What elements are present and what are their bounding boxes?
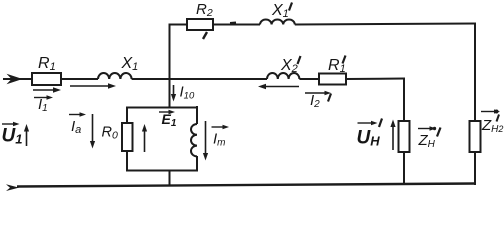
loop right leg upper xyxy=(196,106,198,124)
vector arrow over Zн2 xyxy=(481,111,494,113)
loop left leg upper xyxy=(126,107,128,125)
current arrow under R1 xyxy=(33,89,56,91)
inductor X1 xyxy=(98,73,132,79)
svg-text:Ia: Ia xyxy=(71,118,81,136)
down arrow beside Ia xyxy=(92,114,94,142)
wire X1 to X2' through junction xyxy=(132,78,267,80)
svg-text:X1: X1 xyxy=(271,2,289,20)
vector arrow over Ia xyxy=(69,114,81,116)
vector arrow over E1 xyxy=(159,111,170,113)
load Zн2 box xyxy=(470,121,481,152)
wire loop to bottom rail xyxy=(169,171,171,187)
input terminal arrow xyxy=(7,74,23,84)
svg-text:I10: I10 xyxy=(180,84,195,102)
inductor Lm vertical coil xyxy=(191,124,197,156)
prime mark under R2 xyxy=(203,32,207,39)
svg-text:UH: UH xyxy=(357,128,381,149)
svg-text:R0: R0 xyxy=(102,125,118,142)
wire riser junction to top branch xyxy=(169,24,171,81)
up arrow beside U1 xyxy=(26,130,28,146)
wire R1' to corner xyxy=(346,78,405,81)
vector arrow over Im xyxy=(212,126,225,128)
down arrow beside Lm xyxy=(205,121,207,154)
vector arrow over Zн' xyxy=(418,128,430,130)
wire right side down xyxy=(474,24,476,123)
wire R1 to X1 xyxy=(61,78,98,80)
wire corner down to Zн' xyxy=(403,79,405,123)
wire Zн' to bottom rail xyxy=(403,152,405,185)
wire Zн2 to bottom rail xyxy=(474,152,476,185)
up arrow beside Zн' xyxy=(392,126,394,150)
svg-text:X2: X2 xyxy=(280,57,298,75)
svg-text:X1: X1 xyxy=(121,55,139,73)
resistor R1' xyxy=(319,74,346,85)
bottom rail xyxy=(17,184,476,187)
vector arrow over Uн' xyxy=(358,122,373,124)
svg-text:R1: R1 xyxy=(38,55,56,73)
wire R2 to X1' xyxy=(213,24,260,26)
svg-text:I2: I2 xyxy=(310,92,320,110)
current arrow I10 xyxy=(173,85,175,96)
loop left leg lower xyxy=(126,151,128,172)
loop bottom xyxy=(127,170,197,172)
svg-text:Im: Im xyxy=(213,131,226,149)
resistor R0 xyxy=(122,123,133,151)
wire junction down to magnetizing loop xyxy=(169,79,171,108)
svg-text:ZH: ZH xyxy=(418,132,436,150)
vector arrow over U1 xyxy=(2,123,15,125)
svg-text:E1: E1 xyxy=(162,111,177,129)
svg-text:I1: I1 xyxy=(38,96,48,114)
up arrow in loop left xyxy=(144,130,146,152)
current arrow I2 direction left xyxy=(264,86,299,88)
resistor R2 xyxy=(187,19,213,30)
wire X1' to top right corner xyxy=(295,24,476,25)
svg-text:R2: R2 xyxy=(196,1,213,19)
vector arrow over I2' xyxy=(305,92,326,94)
svg-text:U1: U1 xyxy=(2,126,23,147)
wire input lead xyxy=(3,78,32,80)
resistor R1 xyxy=(32,73,61,85)
load Zн' box xyxy=(399,121,410,152)
wire X2' to R1' xyxy=(299,78,319,80)
svg-text:ZH2: ZH2 xyxy=(481,117,503,135)
inductor X2' xyxy=(267,73,299,79)
loop right leg lower xyxy=(196,156,198,172)
vector arrow over I1 xyxy=(34,97,48,99)
magnetizing loop top xyxy=(127,107,197,109)
inductor X1' xyxy=(260,19,295,24)
bottom rail arrow xyxy=(6,184,19,191)
tick mark on wire xyxy=(230,22,236,25)
wire top branch left xyxy=(169,24,187,26)
current arrow before X1 xyxy=(70,85,110,87)
